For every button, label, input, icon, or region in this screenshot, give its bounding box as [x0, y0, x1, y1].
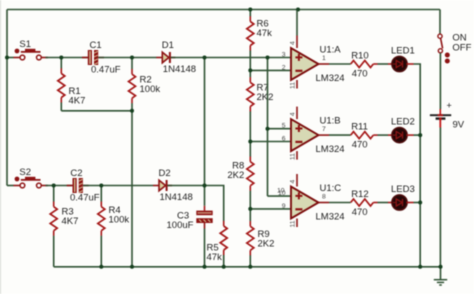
wire top V+ rail	[7, 9, 440, 11]
svg-text:1N4148: 1N4148	[160, 192, 193, 203]
svg-text:2K2: 2K2	[258, 239, 275, 250]
junction U1:A pin4 / V+ rail	[296, 8, 300, 12]
LED LED1	[392, 56, 407, 71]
resistor R5 47k	[207, 193, 228, 267]
battery BT1 9V	[430, 109, 451, 128]
junction R5 / ground rail	[222, 265, 226, 269]
wire R10 pin stub	[373, 63, 377, 65]
svg-text:2K2: 2K2	[227, 170, 244, 181]
op-amp U1:A	[291, 48, 319, 80]
svg-text:R11: R11	[351, 122, 368, 133]
ground symbol	[434, 267, 447, 285]
svg-text:D1: D1	[162, 40, 174, 51]
wire C2 to node R4 and D2	[83, 185, 153, 187]
wire S1 to node R1/C1	[46, 57, 89, 59]
wire R11 pin stub	[373, 134, 377, 136]
junction D2/C3 node	[203, 184, 207, 188]
svg-text:R12: R12	[351, 189, 368, 200]
svg-text:4: 4	[290, 180, 297, 184]
wire LED3 anode stub	[388, 202, 393, 204]
wire LED3 cathode stub	[406, 202, 413, 204]
svg-text:1: 1	[322, 55, 326, 62]
wire S2 to node R3/C2	[46, 185, 73, 187]
pushbutton S1	[13, 39, 48, 60]
svg-text:LED3: LED3	[391, 184, 415, 195]
wire left rail to S1	[7, 57, 14, 59]
op-amp U1:B power pin 4 stub	[296, 107, 298, 120]
junction R1 top	[59, 56, 63, 60]
op-amp U1:B output pin 7 stub	[319, 134, 330, 136]
LED LED2	[392, 128, 407, 143]
capacitor C3 100uF electrolytic	[167, 186, 213, 267]
svg-text:OFF: OFF	[452, 43, 471, 54]
svg-text:R10: R10	[351, 51, 368, 62]
svg-text:100uF: 100uF	[167, 220, 194, 231]
junction C3 / ground rail	[203, 265, 207, 269]
svg-text:C1: C1	[90, 40, 102, 51]
junction LED column / ground rail	[418, 265, 422, 269]
junction R2 branch / ground rail	[130, 265, 134, 269]
resistor R4 100k	[98, 186, 130, 267]
junction battery / ground rail	[439, 265, 443, 269]
wire ladder node B to U1:B pin 6	[250, 141, 291, 143]
svg-text:9: 9	[282, 203, 286, 210]
resistor R8 2K2	[227, 142, 253, 209]
resistor R10 470	[351, 51, 374, 80]
wire D2 cathode to node C3	[167, 185, 204, 187]
wire switch feed from top rail	[439, 10, 441, 34]
junction D1 cathode node	[203, 56, 207, 60]
junction R2 bottom tee	[130, 109, 134, 113]
junction R3 top	[52, 184, 56, 188]
op-amp U1:C power pin 11 stub	[296, 219, 298, 228]
wire ladder node C to U1:C pin 9	[250, 208, 291, 210]
wire R2 bottom to ground rail	[131, 111, 133, 267]
op-amp U1:A output pin 1 stub	[319, 63, 330, 65]
wire D1 cathode to U1:A pin 3	[171, 57, 291, 59]
left image edge artifact	[0, 0, 2, 294]
svg-text:0.47uF: 0.47uF	[91, 64, 121, 75]
op-amp U1:A power pin 4 stub	[296, 36, 298, 49]
wire LED2 anode stub	[388, 134, 393, 136]
wire U1 out to R10	[329, 63, 351, 65]
junction left rail / S1	[5, 56, 9, 60]
wire LED2 cathode stub	[406, 134, 413, 136]
wire R10 to LED1	[378, 63, 389, 65]
junction R4 / ground rail	[99, 265, 103, 269]
svg-text:470: 470	[352, 140, 368, 151]
wire LED1 cathode stub	[406, 63, 413, 65]
svg-text:10: 10	[278, 190, 286, 197]
wire D1 node down to D2 node	[204, 58, 206, 186]
wire R12 to LED3	[378, 202, 389, 204]
svg-text:0.47uF: 0.47uF	[70, 192, 100, 203]
svg-text:4K7: 4K7	[69, 96, 86, 107]
wire LED1 to cathode column	[414, 64, 421, 267]
resistor R12 470	[351, 189, 374, 218]
svg-text:8: 8	[322, 193, 326, 200]
resistor R7 2K2	[247, 70, 274, 141]
wire LED1 anode stub	[388, 63, 393, 65]
svg-text:4K7: 4K7	[62, 216, 79, 227]
wire bus to U1:C pin 10	[268, 195, 292, 197]
resistor R6 47k	[247, 10, 272, 71]
wire battery minus to ground rail	[439, 128, 441, 267]
svg-text:C2: C2	[70, 168, 82, 179]
junction LED3 cathode	[418, 201, 422, 205]
junction bus / pin5	[266, 127, 270, 131]
junction ladder node A	[248, 68, 252, 72]
svg-text:LM324: LM324	[316, 144, 345, 155]
op-amp U1:C power pin 4 stub	[296, 174, 298, 187]
wire R1 bottom to R2 bottom	[61, 110, 132, 112]
wire node C3 to R5 top	[205, 186, 224, 194]
diode D1 1N4148	[156, 40, 196, 75]
wire bus to U1:B pin 5	[268, 128, 292, 130]
svg-text:11: 11	[290, 82, 297, 89]
capacitor C1 0.47uF	[82, 40, 121, 75]
pushbutton S2	[13, 167, 48, 188]
wire R12 pin stub	[373, 202, 377, 204]
svg-text:2: 2	[282, 64, 286, 71]
junction R4 top	[99, 184, 103, 188]
svg-text:S2: S2	[19, 167, 31, 178]
wire LED3 to cathode column	[414, 202, 421, 204]
capacitor C2 0.47uF	[67, 168, 100, 203]
svg-text:1N4148: 1N4148	[163, 64, 196, 75]
wire V+ rail to U1:A pin 4	[296, 10, 298, 36]
junction bus / pin3 row	[266, 56, 270, 60]
svg-text:100k: 100k	[109, 215, 130, 226]
junction R9 / ground rail	[248, 265, 252, 269]
wire R11 to LED2	[378, 134, 389, 136]
wire LED2 to cathode column	[414, 134, 421, 136]
op-amp U1:B	[291, 119, 319, 151]
svg-text:+: +	[447, 101, 452, 111]
svg-text:2K2: 2K2	[257, 92, 274, 103]
svg-text:U1:C: U1:C	[320, 183, 342, 194]
wire left rail	[6, 10, 8, 186]
resistor R11 470	[351, 122, 374, 151]
wire ladder node A to U1:A pin 2	[250, 69, 291, 71]
svg-text:7: 7	[322, 126, 326, 133]
resistor R1 4K7	[58, 58, 86, 111]
junction ladder node C	[248, 207, 252, 211]
wire bottom ground rail	[54, 266, 441, 268]
svg-text:4: 4	[290, 41, 297, 45]
svg-text:100k: 100k	[140, 84, 161, 95]
junction C1/R2/D1	[130, 56, 134, 60]
svg-text:11: 11	[290, 220, 297, 227]
svg-text:3: 3	[282, 52, 286, 59]
diode D2 1N4148	[153, 168, 193, 203]
junction LED2 cathode	[418, 133, 422, 137]
op-amp U1:C	[291, 187, 319, 219]
switch SW ON/OFF	[438, 34, 450, 63]
svg-text:470: 470	[352, 207, 368, 218]
svg-text:LED1: LED1	[391, 46, 415, 57]
LED LED3	[392, 195, 407, 210]
resistor R9 2K2	[247, 209, 275, 267]
op-amp U1:A power pin 11 stub	[296, 80, 298, 89]
svg-text:LM324: LM324	[316, 212, 345, 223]
wire U1 out to R11	[329, 134, 351, 136]
junction ladder node B	[248, 140, 252, 144]
wire switch to battery	[439, 53, 441, 109]
resistor R2 100k	[129, 58, 161, 111]
resistor R3 4K7	[50, 186, 78, 267]
op-amp U1:C output pin 8 stub	[319, 202, 330, 204]
svg-text:470: 470	[352, 69, 368, 80]
wire C1 to node R2 and D1	[98, 57, 156, 59]
svg-text:4: 4	[290, 112, 297, 116]
wire U1 out to R12	[329, 202, 351, 204]
svg-text:D2: D2	[159, 168, 171, 179]
svg-text:U1:A: U1:A	[320, 45, 342, 56]
svg-text:U1:B: U1:B	[320, 116, 341, 127]
svg-text:9V: 9V	[453, 120, 465, 131]
junction R6 top / V+ rail	[248, 8, 252, 12]
svg-text:47k: 47k	[207, 252, 223, 263]
svg-text:LED2: LED2	[391, 117, 415, 128]
svg-text:11: 11	[290, 153, 297, 160]
wire non-inverting bus	[267, 58, 269, 197]
wire left rail to S2	[7, 185, 14, 187]
op-amp U1:B power pin 11 stub	[296, 151, 298, 160]
svg-text:5: 5	[282, 123, 286, 130]
svg-text:S1: S1	[19, 39, 31, 50]
svg-text:47k: 47k	[257, 28, 273, 39]
svg-text:6: 6	[282, 135, 286, 142]
svg-text:LM324: LM324	[316, 73, 345, 84]
